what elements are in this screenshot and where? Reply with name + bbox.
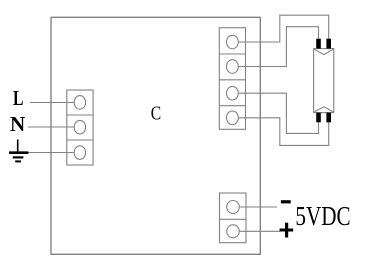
- wire terminal J2-4 to lamp bottom-right pin: [232, 118, 329, 146]
- lamp pin bottom-right: [326, 113, 331, 123]
- wire terminal J2-1 to lamp top-right pin: [232, 15, 329, 42]
- terminal J2-2 circle: [227, 60, 239, 74]
- main enclosure box (ballast/driver outline): [51, 17, 260, 254]
- terminal block J1 (mains input, 3 positions): [67, 90, 93, 165]
- lamp pin top-left: [316, 39, 321, 49]
- wire L to terminal J1-1: [30, 102, 80, 104]
- terminal J2-1 circle: [227, 35, 239, 49]
- lamp pin bottom-left: [316, 113, 321, 123]
- fluorescent lamp tube body: [314, 49, 334, 113]
- svg-text:5VDC: 5VDC: [295, 200, 350, 231]
- terminal block J3 (5VDC input, 2 positions): [220, 193, 247, 243]
- wire ground to terminal J1-3: [28, 152, 80, 154]
- terminal block J2 (lamp output, 4 positions): [219, 28, 245, 130]
- svg-text:C: C: [151, 103, 161, 125]
- plus symbol (5VDC positive): [280, 223, 294, 238]
- terminal J1-3 circle: [74, 146, 85, 160]
- terminal J2-3 circle: [227, 86, 239, 100]
- terminal J1-2 circle: [74, 120, 85, 134]
- minus symbol (5VDC negative): [281, 200, 291, 203]
- wire terminal J2-3 to lamp bottom-left pin: [232, 93, 319, 133]
- wire terminal J3-1 to minus: [233, 206, 277, 208]
- svg-text:L: L: [13, 86, 24, 110]
- ground symbol: [9, 140, 28, 162]
- wire terminal J3-2 to plus: [233, 230, 280, 232]
- wire N to terminal J1-2: [28, 126, 80, 128]
- lamp bottom filament chevron: [314, 107, 333, 112]
- terminal J3-1 circle: [227, 201, 240, 214]
- terminal J3-2 circle: [227, 225, 240, 238]
- terminal J1-1 circle: [74, 96, 85, 110]
- lamp top filament chevron: [314, 49, 333, 54]
- lamp pin top-right: [326, 39, 331, 49]
- svg-text:N: N: [10, 112, 25, 136]
- terminal J2-4 circle: [227, 111, 239, 125]
- wire terminal J2-2 to lamp top-left pin: [232, 27, 319, 67]
